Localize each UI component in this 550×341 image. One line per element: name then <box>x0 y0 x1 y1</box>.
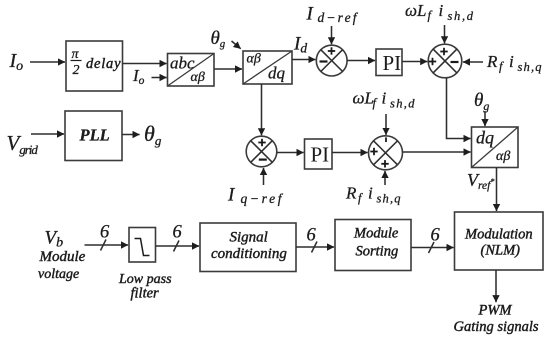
svg-text:Modulation: Modulation <box>464 226 533 242</box>
wire omega Lf ish,d down to J2 <box>444 25 446 43</box>
block signal conditioning <box>200 223 296 272</box>
svg-text:2: 2 <box>73 63 80 78</box>
wire PI1 to J2 <box>402 61 427 63</box>
bus slash 6 on sorting wire <box>429 226 441 254</box>
svg-text:αβ: αβ <box>191 70 205 85</box>
node Vref label <box>467 170 494 192</box>
svg-text:I: I <box>227 185 236 206</box>
summer J3 <box>246 136 277 167</box>
svg-text:dq: dq <box>268 64 286 83</box>
svg-text:d−ref: d−ref <box>318 10 359 25</box>
svg-text:q−ref: q−ref <box>241 191 284 206</box>
bus slash 6 on conditioning wire <box>307 226 318 253</box>
wire signal conditioning to module sorting <box>296 246 334 248</box>
node Rf ish,q middle label <box>345 184 401 206</box>
node Io second label <box>132 66 145 87</box>
svg-text:conditioning: conditioning <box>211 246 287 262</box>
node omega Lf ish,d middle label <box>353 89 416 111</box>
svg-text:Id: Id <box>293 34 307 56</box>
wire abc to alphabeta/dq <box>214 68 242 70</box>
svg-text:Signal: Signal <box>230 229 268 245</box>
svg-text:Rfish,q: Rfish,q <box>345 184 401 206</box>
svg-text:π: π <box>72 47 80 62</box>
wire J1 to PI1 <box>347 60 375 62</box>
svg-text:θg: θg <box>211 28 226 50</box>
svg-text:dq: dq <box>476 128 494 148</box>
wire omega Lf ish,d down to J4 <box>385 114 387 135</box>
svg-text:αβ: αβ <box>496 149 510 164</box>
svg-text:6: 6 <box>307 226 317 246</box>
wire J3 to PI2 <box>277 152 304 154</box>
node Low pass filter caption <box>118 272 172 302</box>
svg-text:I: I <box>306 4 315 25</box>
node Vb label <box>45 228 64 251</box>
wire Rf ish,q up to J4 <box>384 171 386 185</box>
svg-text:6: 6 <box>431 226 441 246</box>
block abc/alphabeta transform <box>168 54 215 87</box>
svg-text:θg: θg <box>144 121 162 148</box>
summer J2 <box>428 44 462 78</box>
node theta_g top label <box>211 28 226 50</box>
block module sorting <box>335 220 411 271</box>
block PI controller 1 <box>376 49 402 76</box>
svg-text:PLL: PLL <box>79 126 110 145</box>
svg-text:Vref*: Vref* <box>467 170 494 192</box>
wire dq/alphabeta down to Modulation <box>496 168 498 212</box>
wire J2 down and right into dq/alphabeta <box>447 78 471 139</box>
svg-text:PWM: PWM <box>478 303 513 319</box>
wire Iq-ref up to J3 <box>263 168 265 185</box>
wire PI2 to J4 <box>332 152 368 154</box>
block PI controller 2 <box>305 139 333 169</box>
svg-text:6: 6 <box>100 223 110 243</box>
wire Rf ish,q into J2 <box>463 61 483 63</box>
node Io input label <box>9 50 24 74</box>
svg-text:Io: Io <box>132 66 145 87</box>
wire PLL to theta_g <box>122 134 140 136</box>
block PLL <box>65 111 122 161</box>
block low pass filter <box>129 228 156 263</box>
block modulation NLM <box>455 212 544 270</box>
svg-text:(NLM): (NLM) <box>481 243 521 259</box>
svg-text:Sorting: Sorting <box>356 243 399 259</box>
node theta_g output label <box>144 121 162 148</box>
svg-text:PI: PI <box>383 51 402 75</box>
svg-text:Rfish,q: Rfish,q <box>486 52 542 74</box>
wire Vb to low pass filter <box>85 244 129 246</box>
bus slash 6 on filter wire <box>173 223 183 252</box>
svg-text:αβ: αβ <box>247 52 261 67</box>
svg-text:Gating signals: Gating signals <box>454 319 539 335</box>
svg-text:delay: delay <box>86 56 121 72</box>
node theta_g label above dq/alphabeta <box>474 90 489 113</box>
wire Io to pi/2 delay <box>30 61 65 63</box>
node Iq-ref label <box>227 185 284 207</box>
bus slash 6 on Vb wire <box>100 223 110 251</box>
svg-text:Vb: Vb <box>45 228 64 251</box>
wire module sorting to modulation <box>411 247 454 249</box>
svg-text:Module: Module <box>353 226 399 242</box>
svg-text:Module: Module <box>39 249 86 265</box>
node Id-ref label <box>306 4 359 26</box>
node Rf ish,q right label <box>486 52 542 74</box>
wire Id-ref down to J1 <box>331 26 333 44</box>
svg-text:PI: PI <box>311 143 330 167</box>
node PWM gating signals caption <box>454 303 539 336</box>
node omega Lf ish,d top label <box>405 1 474 23</box>
block alphabeta/dq transform <box>243 51 292 84</box>
wire alphabeta/dq down to J3 <box>261 84 263 135</box>
summer J1 <box>316 45 347 76</box>
wire low pass filter to signal conditioning <box>156 245 200 247</box>
summer J4 <box>369 136 403 170</box>
svg-text:6: 6 <box>173 223 183 243</box>
svg-text:Io: Io <box>9 50 24 74</box>
block pi/2 delay <box>66 41 123 91</box>
node Id label <box>293 34 307 56</box>
wire modulation down to PWM <box>495 270 497 302</box>
svg-text:Vgrid: Vgrid <box>7 131 39 157</box>
wire delay to abc block <box>123 63 167 65</box>
svg-text:θg: θg <box>474 90 489 113</box>
block dq/alphabeta transform <box>472 127 519 168</box>
svg-text:ωLfish,d: ωLfish,d <box>353 89 416 111</box>
svg-text:filter: filter <box>131 286 160 302</box>
wire Io to abc block <box>152 77 167 79</box>
wire J4 to dq/alphabeta <box>403 151 471 153</box>
node Vgrid label <box>7 131 39 157</box>
wire Id to sum junction J1 <box>292 59 315 61</box>
svg-text:voltage: voltage <box>38 267 79 282</box>
node Module voltage caption <box>38 249 86 282</box>
wire Vgrid to PLL <box>31 133 64 135</box>
wire theta_g into alphabeta/dq <box>232 41 241 49</box>
svg-text:ωLfish,d: ωLfish,d <box>405 1 474 23</box>
wire theta_g down into dq/alphabeta <box>484 111 486 126</box>
